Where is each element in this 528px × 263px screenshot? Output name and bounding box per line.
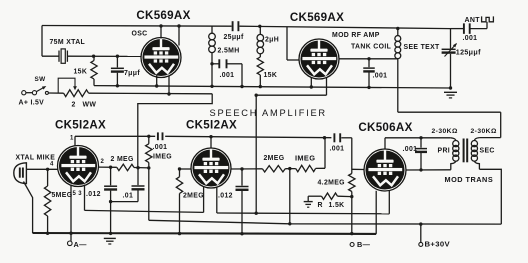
svg-text:.001: .001 (403, 146, 418, 153)
svg-text:25μμf: 25μμf (224, 34, 244, 41)
svg-text:5 3: 5 3 (73, 191, 83, 197)
svg-text:75M XTAL: 75M XTAL (50, 39, 86, 46)
svg-text:.001: .001 (330, 146, 345, 153)
svg-text:1: 1 (70, 136, 74, 142)
svg-text:.01: .01 (123, 193, 134, 200)
svg-text:2-30KΩ: 2-30KΩ (432, 128, 458, 135)
svg-text:2MEG: 2MEG (183, 193, 204, 200)
svg-text:A—: A— (74, 240, 88, 249)
svg-text:.001: .001 (463, 35, 478, 42)
svg-text:CK5I2AX: CK5I2AX (55, 119, 106, 132)
svg-text:.012: .012 (86, 191, 101, 198)
svg-text:2.5MH: 2.5MH (218, 48, 240, 55)
svg-text:.001: .001 (220, 72, 235, 79)
svg-text:R: R (318, 202, 323, 209)
svg-text:SEC: SEC (480, 148, 495, 155)
svg-text:15K: 15K (74, 69, 88, 76)
svg-text:MOD TRANS: MOD TRANS (445, 175, 494, 184)
svg-text:.012: .012 (218, 193, 233, 200)
svg-text:.001: .001 (153, 144, 168, 151)
svg-text:CK506AX: CK506AX (358, 121, 412, 134)
svg-text:1.5K: 1.5K (329, 202, 345, 209)
svg-text:WW: WW (83, 102, 97, 109)
svg-text:.001: .001 (373, 73, 388, 80)
svg-text:125μμf: 125μμf (456, 49, 481, 57)
svg-text:IMEG: IMEG (153, 154, 172, 161)
svg-text:TANK COIL: TANK COIL (351, 44, 391, 51)
svg-text:2-30KΩ: 2-30KΩ (471, 128, 497, 135)
svg-text:SW: SW (35, 76, 47, 83)
svg-text:MOD RF AMP: MOD RF AMP (332, 32, 380, 39)
svg-text:2 MEG: 2 MEG (111, 156, 134, 163)
svg-text:B+30V: B+30V (425, 240, 451, 249)
svg-text:IMEG: IMEG (295, 154, 315, 163)
svg-text:PRI: PRI (438, 148, 451, 155)
svg-text:SPEECH AMPLIFIER: SPEECH AMPLIFIER (210, 108, 327, 118)
svg-text:CK5I2AX: CK5I2AX (186, 119, 237, 132)
svg-text:2μH: 2μH (265, 37, 279, 44)
svg-text:CK569AX: CK569AX (290, 11, 344, 24)
svg-text:ANT: ANT (465, 17, 481, 24)
svg-text:5MEG: 5MEG (52, 192, 73, 199)
svg-text:4.2MEG: 4.2MEG (318, 180, 345, 187)
svg-text:SEE TEXT: SEE TEXT (404, 44, 441, 51)
svg-text:7μμf: 7μμf (124, 70, 140, 77)
svg-text:XTAL MIKE: XTAL MIKE (16, 155, 56, 162)
svg-text:15K: 15K (264, 72, 278, 79)
svg-text:4: 4 (50, 162, 54, 168)
svg-text:A+ I.5V: A+ I.5V (19, 100, 45, 107)
svg-text:2MEG: 2MEG (264, 155, 285, 162)
svg-text:B—: B— (357, 240, 371, 249)
svg-text:2: 2 (101, 159, 105, 165)
svg-text:2: 2 (72, 102, 76, 109)
svg-text:CK569AX: CK569AX (136, 9, 190, 22)
svg-text:OSC: OSC (132, 31, 148, 38)
